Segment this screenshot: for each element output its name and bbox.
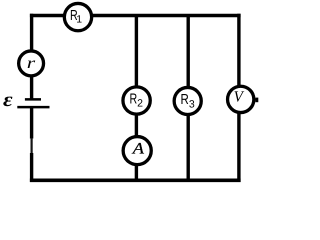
svg-text:1: 1 <box>76 13 82 25</box>
label R2 <box>130 91 144 109</box>
svg-text:3: 3 <box>189 98 195 110</box>
wire branch R3 <box>186 16 189 181</box>
voltmeter V circle <box>228 86 254 112</box>
svg-text:A: A <box>132 140 145 157</box>
resistor R3 circle <box>174 87 201 114</box>
label R1 <box>70 8 82 26</box>
wire left upper segment <box>30 14 33 99</box>
wire right <box>237 14 240 182</box>
battery cell short plate <box>25 98 41 101</box>
voltmeter right stub <box>255 98 258 103</box>
svg-text:R: R <box>181 92 189 108</box>
wire branch R2/A <box>135 16 138 181</box>
svg-text:r: r <box>27 55 36 72</box>
internal resistance r circle <box>19 51 44 76</box>
wire left lower thin segment <box>31 138 33 154</box>
resistor R2 circle <box>123 87 150 114</box>
wire left bottom segment <box>30 153 33 182</box>
svg-text:2: 2 <box>137 97 143 109</box>
svg-text:R: R <box>130 91 138 107</box>
svg-text:ε: ε <box>3 89 14 111</box>
resistor R1 circle <box>64 3 91 30</box>
label R3 <box>181 92 195 110</box>
ammeter A circle <box>123 137 151 165</box>
wire left lower segment <box>30 107 33 138</box>
wire bottom <box>30 178 241 182</box>
wire top <box>30 14 241 17</box>
battery cell long plate <box>17 106 49 109</box>
svg-text:V: V <box>234 88 245 105</box>
